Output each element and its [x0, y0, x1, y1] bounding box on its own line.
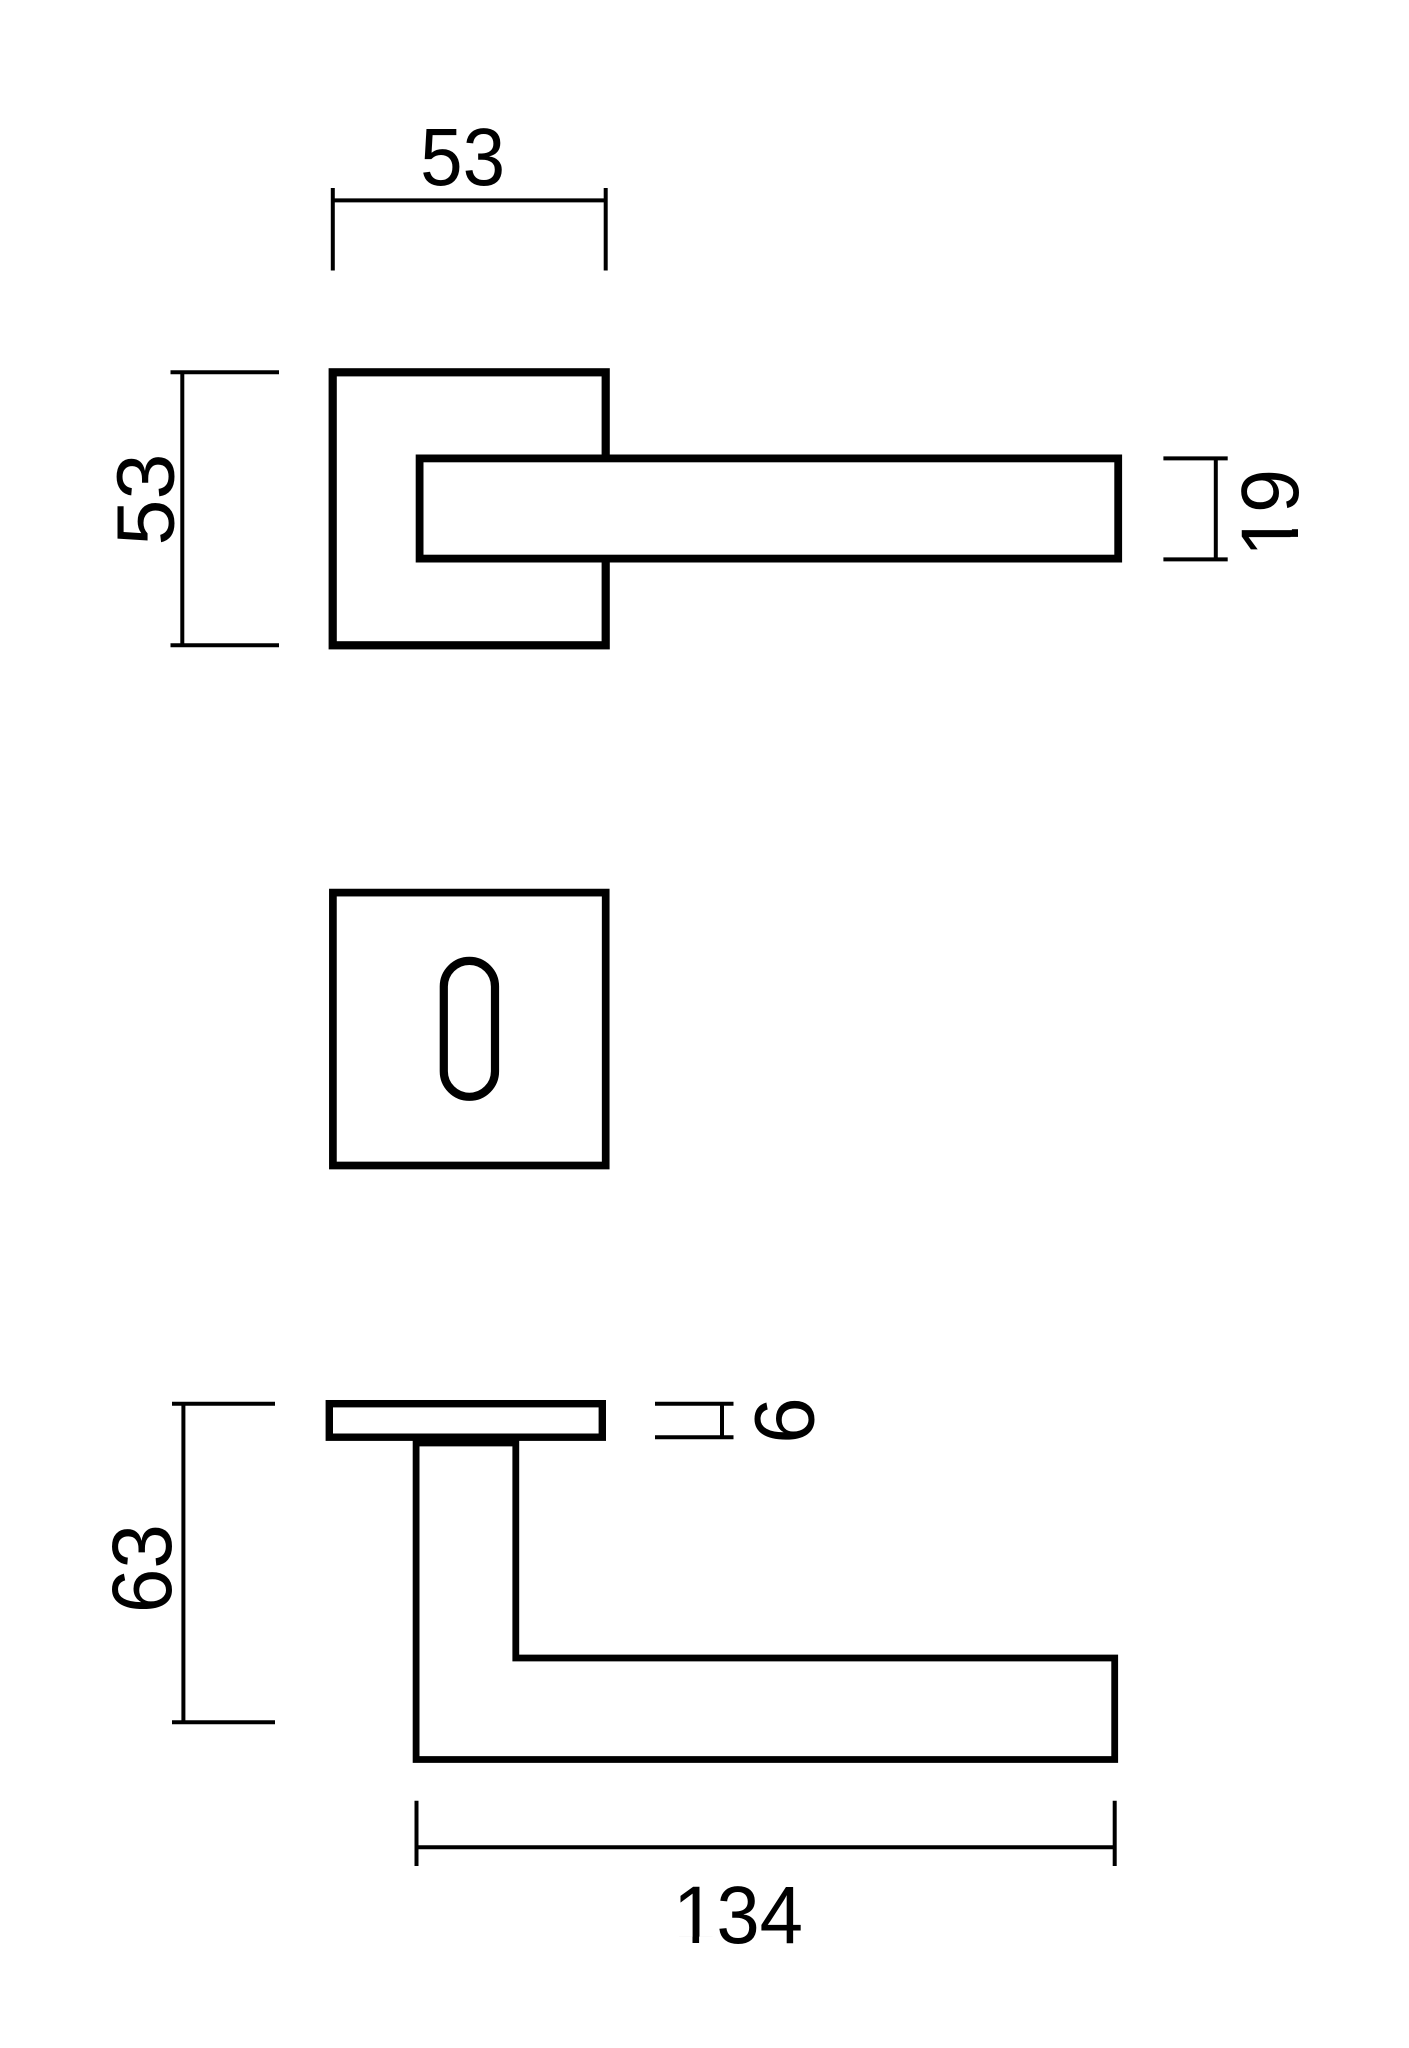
- dimension 6 (plate thickness): extension line top: [655, 1402, 734, 1406]
- escutcheon: square key rosette: [333, 893, 606, 1166]
- dimension 6: value label (rotated): [738, 1397, 832, 1444]
- dimension 53 (left): extension line bottom: [171, 643, 280, 647]
- front view: square rosette plate: [333, 372, 606, 645]
- dimension 63: dimension line: [181, 1404, 185, 1723]
- dimension 53 (top): extension line right: [604, 188, 608, 271]
- dimension 53 (left, rosette height): extension line top: [171, 370, 280, 374]
- dimension 53 (left): value label (rotated): [101, 454, 192, 546]
- dimension 53 (left): dimension line: [180, 372, 184, 645]
- dimension 63 (handle height): extension line top: [172, 1402, 275, 1406]
- escutcheon: keyhole slot: [444, 961, 495, 1097]
- dimension 134: value label: [673, 1870, 803, 1961]
- svg-text:63: 63: [95, 1524, 189, 1613]
- dimension 19: extension line bottom: [1163, 557, 1227, 561]
- front view: lever handle bar: [420, 458, 1119, 558]
- dimension 6: dimension line: [720, 1404, 724, 1438]
- dimension 63: value label (rotated): [95, 1524, 189, 1613]
- side view: handle L-profile: [416, 1443, 1115, 1760]
- svg-text:19: 19: [1225, 469, 1316, 557]
- dimension 134 (lever length): extension line left: [415, 1801, 419, 1866]
- dimension 19 (lever bar thickness): extension line top: [1163, 456, 1227, 460]
- dimension 19: value label (rotated): [1225, 469, 1316, 557]
- svg-text:53: 53: [420, 112, 505, 203]
- dimension 6: extension line bottom: [655, 1435, 734, 1439]
- dimension 63: extension line bottom: [172, 1720, 275, 1724]
- dimension 134: extension line right: [1113, 1801, 1117, 1866]
- dimension 134: dimension line: [417, 1845, 1115, 1849]
- dimension 19: dimension line: [1214, 458, 1218, 559]
- dimension 53 (top): value label: [420, 112, 505, 203]
- side view: rosette plate (edge-on): [329, 1404, 602, 1438]
- dimension 53 (top, rosette width): extension line left: [331, 188, 335, 271]
- dimension 53 (top): dimension line: [333, 198, 606, 202]
- svg-text:53: 53: [101, 454, 192, 546]
- svg-text:134: 134: [673, 1870, 803, 1961]
- svg-text:6: 6: [738, 1397, 832, 1444]
